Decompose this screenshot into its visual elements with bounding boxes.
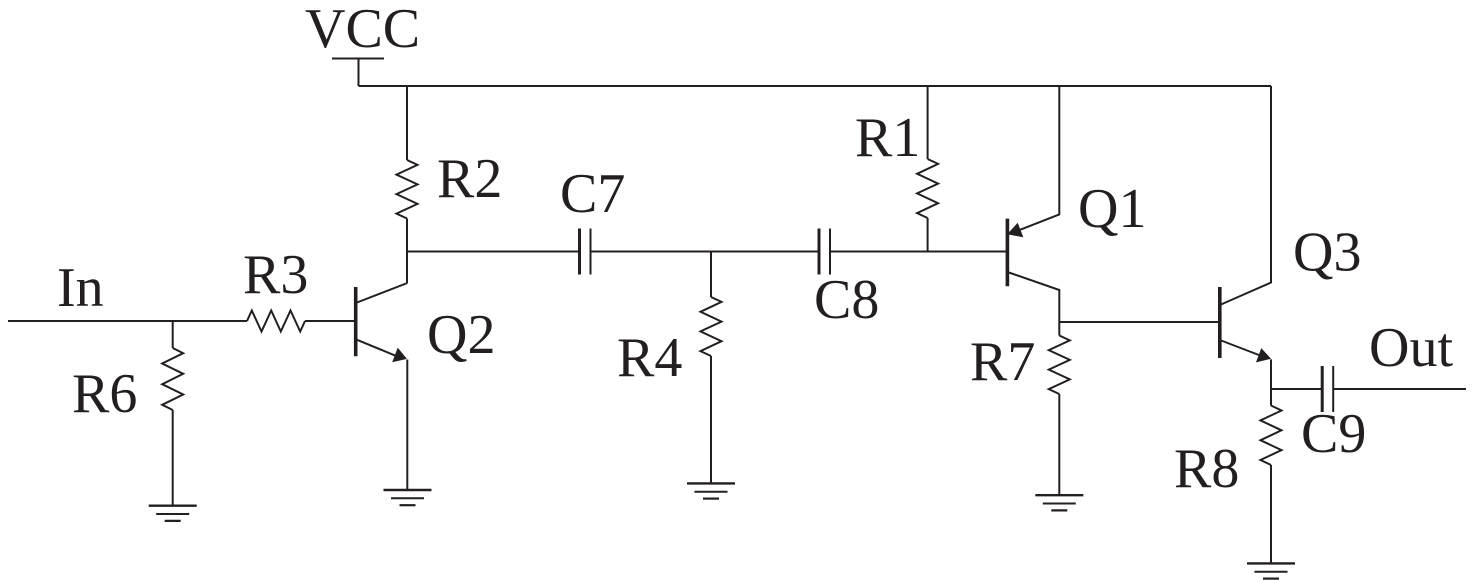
wire R4 to ground [710, 356, 712, 483]
wire R8 to ground [1270, 465, 1272, 563]
svg-text:Q3: Q3 [1293, 222, 1361, 284]
ground Q2 [384, 489, 432, 491]
transistor Q3 base bar [1218, 287, 1222, 358]
svg-text:R8: R8 [1174, 438, 1239, 500]
resistor R7 [1049, 336, 1070, 395]
resistor R2 [397, 160, 418, 219]
svg-text:Q1: Q1 [1078, 178, 1146, 240]
ground R7 [1035, 494, 1083, 496]
resistor R1 [917, 159, 938, 218]
wire Q3 emitter to out node [1270, 359, 1272, 405]
wire rail to R1 [927, 86, 929, 159]
wire R7 to ground [1058, 394, 1060, 495]
wire Q1 collector to Q3 base [1059, 321, 1218, 323]
wire Q2 emitter to ground [406, 360, 408, 491]
ground R4 [687, 482, 735, 484]
wire C8 to Q1 base [830, 251, 1006, 253]
resistor R3 [247, 311, 305, 332]
svg-text:Out: Out [1369, 317, 1453, 379]
wire VCC stem [358, 59, 360, 87]
svg-text:Q2: Q2 [427, 304, 495, 366]
resistor R6 [162, 348, 183, 410]
wire In to R3 [8, 320, 247, 322]
ground R8 [1247, 562, 1295, 564]
transistor Q3 collector (to rail) [1220, 86, 1271, 305]
transistor Q3 emitter [1220, 340, 1268, 359]
wire R6 to ground [172, 410, 174, 506]
arrow Q1 emitter [1007, 223, 1023, 238]
wire C9 to Out [1333, 388, 1466, 390]
capacitor C8 [818, 229, 821, 275]
svg-text:In: In [57, 257, 104, 319]
svg-text:R1: R1 [855, 107, 920, 169]
wire R3 to Q2 base [305, 320, 354, 322]
transistor Q1 base bar [1006, 219, 1010, 287]
transistor Q1 collector [1007, 272, 1059, 336]
svg-text:VCC: VCC [305, 0, 420, 60]
svg-text:R3: R3 [243, 244, 308, 306]
arrow Q3 emitter [1256, 348, 1271, 362]
wire node to R4 [710, 252, 712, 298]
wire node to C9 [1271, 388, 1322, 390]
wire Q2 collector to C7 [407, 251, 580, 253]
transistor Q2 collector [356, 283, 408, 303]
arrow Q2 emitter [392, 348, 407, 363]
VCC bar symbol [332, 58, 384, 60]
resistor R8 [1261, 406, 1282, 466]
transistor Q2 base bar [354, 287, 358, 356]
transistor Q2 emitter [356, 339, 403, 359]
wire C7 to C8 [591, 251, 819, 253]
resistor R4 [701, 297, 722, 356]
ground R6 [149, 505, 197, 507]
wire rail to R2 [406, 86, 408, 160]
capacitor C9 [1321, 366, 1324, 412]
svg-text:R2: R2 [437, 148, 502, 210]
capacitor C7 [578, 229, 581, 275]
svg-text:C9: C9 [1301, 403, 1366, 465]
wire VCC top rail [359, 85, 1272, 87]
wire R2 to Q2 collector node [406, 219, 408, 284]
svg-text:C8: C8 [814, 269, 879, 331]
wire node In-R6 [172, 321, 174, 348]
svg-text:R4: R4 [617, 327, 682, 389]
svg-text:R6: R6 [72, 363, 137, 425]
svg-text:R7: R7 [970, 331, 1035, 393]
wire R1 to signal node [927, 218, 929, 252]
transistor Q1 emitter (to VCC) [1020, 86, 1059, 230]
svg-text:C7: C7 [560, 163, 625, 225]
